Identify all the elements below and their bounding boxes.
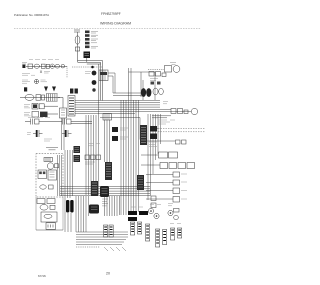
thermostat TH1: [34, 79, 38, 83]
strip connector E: [146, 224, 150, 241]
annotation: [41, 80, 48, 82]
annotation marks center: [102, 199, 108, 206]
dashed wire: [148, 69, 164, 71]
header dashed separator line: [14, 28, 201, 30]
aux box: [165, 66, 172, 73]
annotation text: [44, 72, 50, 74]
capsule inside: [44, 214, 52, 218]
terminal dot: [24, 87, 27, 91]
circle comp 4: [174, 215, 179, 220]
ice maker motor M2: [47, 163, 53, 169]
ladder connector J2: [91, 181, 98, 196]
label above: [170, 63, 176, 65]
wire bundle to right: [78, 61, 103, 65]
label text above right strips: [168, 204, 173, 206]
resistor R1: [35, 119, 40, 124]
diagonal hatch marks: [104, 247, 126, 251]
control box title: [46, 148, 58, 150]
dashed drop wire: [66, 66, 68, 78]
terminal block: [22, 65, 25, 68]
lower box outline: [36, 197, 63, 230]
circle comp 1: [148, 208, 153, 213]
plug symbol: [46, 223, 56, 230]
wire bus: [60, 187, 150, 196]
strip connector D: [138, 222, 142, 234]
annotation: [44, 139, 52, 141]
wire stubs below door switch bars: [68, 213, 71, 232]
compressor blob: [100, 186, 109, 197]
cluster boxes: [171, 109, 176, 114]
start relay: [39, 104, 44, 109]
label text near strips: [131, 205, 161, 208]
label text: [22, 63, 27, 65]
wire: [141, 129, 175, 142]
door switch bar 2: [70, 200, 73, 213]
wire: [58, 155, 62, 196]
circle comp 3: [168, 210, 173, 215]
diode D2: [52, 87, 56, 92]
junction box: [60, 108, 67, 118]
double box label: [159, 152, 168, 158]
wire: [86, 58, 88, 62]
ground symbol: [40, 71, 42, 74]
capsule component 2: [159, 88, 164, 94]
svg-text:67/16: 67/16: [38, 274, 46, 278]
thermal cutoff: [75, 47, 79, 51]
box bottom wire: [36, 229, 63, 231]
switch: [49, 185, 54, 189]
hatched connector block: [137, 175, 144, 190]
strip connector I: [178, 228, 182, 238]
dashed line row 2: [158, 131, 205, 133]
wire: [20, 97, 60, 99]
label text: [24, 105, 30, 108]
connector block CN2: [74, 146, 81, 153]
label text right of bus corner: [163, 102, 168, 104]
blob labels: [120, 128, 128, 139]
label boxes row: [85, 155, 90, 160]
row of header boxes: [160, 163, 168, 169]
junction node: [91, 66, 94, 69]
fuse F1: [75, 36, 80, 44]
small blob: [92, 88, 95, 91]
wire: [141, 154, 158, 156]
connector block CN3: [74, 155, 81, 162]
door switch bar 1: [66, 200, 69, 213]
dashed line row 1: [158, 128, 205, 130]
strip connector B: [109, 225, 113, 237]
multi-pin connector block CN5: [68, 96, 75, 117]
circle comp 2: [154, 213, 159, 218]
inner terminal row: [44, 158, 53, 162]
label box r1: [173, 172, 180, 177]
svg-text:FPHB2799PF: FPHB2799PF: [101, 12, 121, 16]
wire: [160, 109, 191, 111]
large box outline: [100, 118, 140, 140]
wire: [71, 121, 92, 123]
wire: [141, 72, 143, 100]
wire pair down from junction box: [62, 118, 65, 150]
annotation rows: [158, 120, 175, 124]
wire: [65, 150, 73, 232]
wire links to top boxes: [152, 116, 171, 118]
connector stack labels: [91, 32, 98, 49]
dark blob component: [92, 71, 97, 76]
wire bus bottom: [76, 232, 128, 245]
dark blob pair: [112, 127, 118, 132]
svg-text:Publication No. 09084197A: Publication No. 09084197A: [14, 13, 49, 17]
wire drops from terminal box: [105, 120, 110, 162]
vertical drop lines top-mid detail: [105, 72, 144, 216]
cluster small comps: [149, 72, 154, 77]
polarized capacitor C6: [62, 130, 72, 137]
wire bundle far right: [148, 114, 161, 200]
svg-text:WIRING DIAGRAM: WIRING DIAGRAM: [100, 22, 131, 26]
wire bundle center: [86, 100, 99, 195]
lower row rect A: [37, 199, 45, 204]
label text: [24, 113, 31, 116]
small comps below: [151, 196, 156, 201]
mini relay: [55, 164, 59, 168]
module box A: [38, 170, 47, 179]
relay box: [41, 95, 44, 100]
compressor blob 2: [89, 205, 99, 214]
water valve coil: [40, 205, 48, 211]
component pair: [70, 89, 73, 94]
dark bar 2: [139, 211, 148, 215]
condenser fan motor M4: [191, 108, 197, 114]
wire: [39, 121, 62, 123]
annotation: [150, 79, 158, 81]
wire verticals center top: [105, 196, 120, 216]
lamp: [61, 64, 65, 68]
label box r2: [173, 180, 180, 185]
annotation: [85, 162, 95, 164]
annotation text: [22, 74, 35, 76]
dark oval component 2: [146, 88, 151, 97]
fan motor M1: [50, 64, 54, 68]
dark block pair on bundle: [150, 126, 157, 132]
switch S1: [28, 64, 33, 68]
strip connector A: [104, 225, 108, 237]
vertical wires below bus: [76, 196, 89, 232]
connector block CN4: [99, 70, 108, 81]
capacitor C1: [55, 64, 60, 68]
capsule component 1: [153, 88, 158, 95]
relay: [46, 64, 49, 68]
wire: [48, 113, 59, 115]
relay K1: [84, 52, 91, 59]
polarized capacitor C5: [33, 130, 43, 137]
defrost thermostat: [40, 112, 48, 117]
small comp: [50, 205, 55, 209]
terminal label L1: [74, 30, 80, 32]
wire: [25, 121, 31, 123]
wire: [44, 105, 58, 107]
hatched connector column: [140, 125, 147, 145]
label text: [22, 80, 30, 83]
small box near circles: [174, 209, 180, 213]
small comp pair: [151, 82, 155, 85]
strip connector H: [171, 228, 175, 240]
strip connector G: [163, 230, 167, 245]
strip connector F: [156, 229, 160, 247]
svg-text:20: 20: [106, 272, 110, 276]
capacitor C3: [31, 119, 33, 125]
terminal box with ticks: [103, 114, 112, 121]
label text near center bundle: [88, 144, 100, 146]
wire: [141, 164, 160, 166]
inner box: [41, 212, 57, 222]
small text right of blocks: [149, 142, 157, 147]
wires to label boxes: [146, 175, 173, 200]
compressor start device: [32, 103, 38, 109]
wire: [99, 61, 103, 101]
annotation: [27, 133, 31, 135]
strip connector C: [131, 222, 135, 235]
overload protector: [41, 64, 45, 68]
run capacitor C2: [25, 94, 34, 100]
wire: [108, 73, 115, 93]
resistor R2: [67, 119, 72, 124]
dashed tail: [76, 246, 100, 248]
box outline top right: [129, 72, 156, 100]
wire: [58, 98, 63, 109]
defrost heater H1: [32, 111, 39, 117]
capacitor C4: [63, 119, 65, 125]
connector stack CN1: [85, 31, 90, 49]
heater element: [40, 185, 46, 189]
small box pair right: [176, 140, 181, 144]
wire: [77, 32, 79, 62]
label box r3: [173, 188, 180, 194]
module box B: [48, 170, 57, 180]
label text bottom far right: [170, 223, 181, 225]
ladder connector J1: [105, 162, 112, 180]
control box dashed outline: [36, 154, 63, 198]
annotation text: [28, 117, 50, 119]
aux motor M3: [173, 66, 180, 73]
wire bundle right-center: [121, 68, 139, 215]
dark oval component 1: [141, 88, 146, 97]
diode D1: [44, 87, 48, 92]
annotation left of blobs: [85, 72, 91, 74]
annotation speckle group: [29, 60, 181, 224]
wire bus: [75, 101, 160, 114]
relay box: [36, 95, 41, 101]
wire: [26, 65, 67, 67]
wire: [113, 93, 141, 96]
motor run capacitor: [34, 64, 40, 68]
label box r4: [173, 197, 180, 203]
label text above row1: [29, 59, 59, 61]
connector pin header P2: [47, 94, 58, 102]
dark blob component: [92, 80, 97, 85]
dashed harness line: [72, 66, 103, 68]
dark bar 1: [128, 211, 137, 215]
lower row rect B: [47, 199, 55, 204]
dark bar 3: [128, 217, 137, 221]
